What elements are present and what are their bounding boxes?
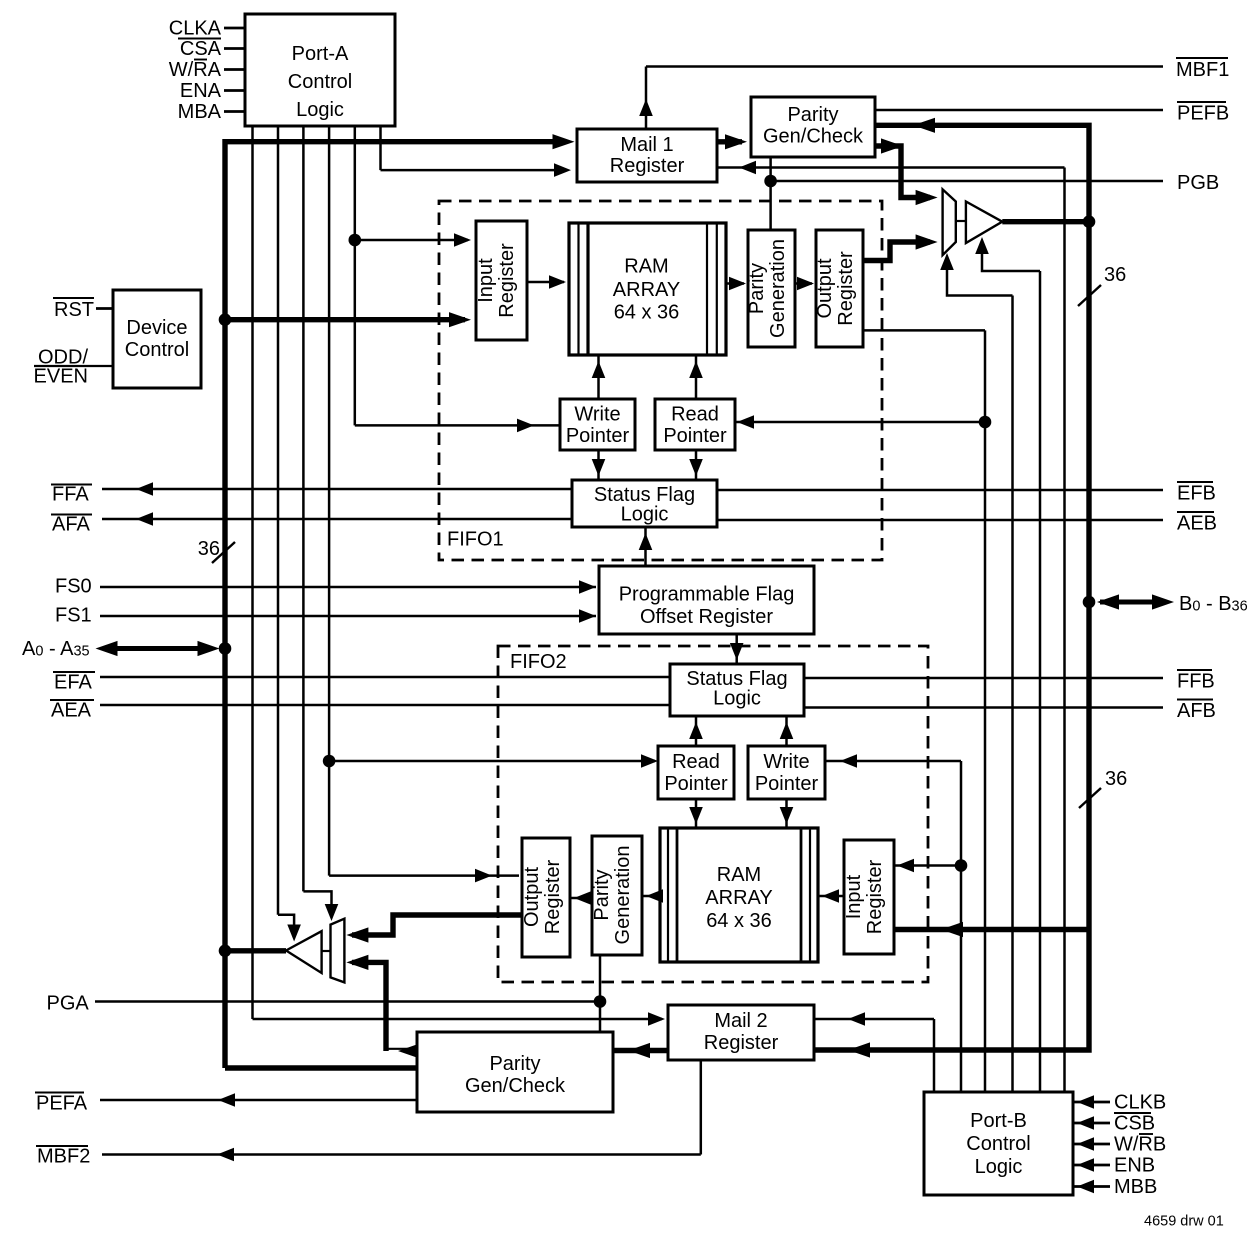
block Status Flag Logic (FIFO1): [572, 480, 717, 527]
wire to Input Register 2 enable: [895, 864, 962, 867]
label bus width 36 (B side upper): [1078, 264, 1126, 306]
wire CLKA lead: [224, 27, 245, 30]
arrow into Parity Gen/Check A right: [628, 1043, 650, 1058]
arrow MBF1 up: [639, 99, 653, 116]
arrow A0-A35 outward: [96, 641, 118, 656]
arrow into A output buffer enable: [287, 925, 301, 942]
arrow into Status Flag Logic 1 from Write Pointer: [592, 459, 606, 476]
wire Offset Register to Status Flag Logic 2: [735, 634, 738, 664]
wire mux A to buffer A: [322, 950, 331, 952]
block Parity Gen/Check (Port B): [751, 97, 875, 157]
wire Mail 1 return from Port-B: [717, 166, 1065, 169]
label drawing number 4659 drw 01: [1144, 1214, 1224, 1230]
wire portB ctl 5 vertical: [1039, 271, 1042, 1092]
node AFB label: [1177, 700, 1216, 723]
arrow into Output Register 2 left: [475, 869, 492, 883]
svg-text:Mail 1: Mail 1: [620, 134, 673, 156]
wire Parity Generation 1 to Output Register 1: [795, 282, 812, 285]
block FIFO2 dashed boundary: [498, 646, 928, 982]
arrow Write Pointer 1 up: [592, 361, 606, 378]
arrow up from Read Pointer 2: [689, 722, 703, 739]
wire PGA junction vertical: [599, 955, 602, 1033]
svg-text:FS1: FS1: [55, 605, 92, 627]
bus A-port data vertical with corners: [225, 142, 563, 1068]
wire PGB vertical to Parity Generation 1: [769, 158, 772, 231]
label bus width 36 (B side lower): [1079, 768, 1127, 808]
svg-text:Logic: Logic: [975, 1156, 1023, 1178]
svg-text:Parity: Parity: [787, 104, 838, 126]
wire Mail 1 to MBF1 vertical: [645, 67, 648, 130]
bus Mail 2 to Parity Gen/Check A: [613, 1048, 668, 1053]
svg-text:Parity: Parity: [591, 869, 613, 920]
wire ODD/EVEN lead with EVEN overline: [34, 365, 113, 367]
block Parity Gen/Check (Port A): [417, 1032, 613, 1112]
svg-text:PEFA: PEFA: [36, 1093, 88, 1115]
arrow into Write Pointer 2: [840, 754, 857, 768]
svg-text:Programmable Flag: Programmable Flag: [619, 584, 795, 606]
mux A output select (trapezoid): [331, 919, 345, 983]
svg-text:Logic: Logic: [713, 688, 761, 710]
junction portA ctl 5 / Input Register 1: [349, 234, 362, 247]
bus A bottom to Parity Gen/Check A: [225, 1065, 417, 1070]
svg-text:Write: Write: [574, 404, 620, 426]
block Port-A Control Logic: [245, 14, 395, 126]
junction portA ctl 4 / Read Pointer 2: [323, 755, 336, 768]
wire ENA lead: [224, 89, 245, 92]
block Parity Generation (FIFO1): [748, 230, 795, 347]
node AFA label: [51, 514, 92, 536]
svg-text:FIFO2: FIFO2: [510, 651, 567, 673]
bus A data to Input Register 1: [225, 317, 465, 322]
wire Read Pointer 1 enable from Port-B: [735, 421, 985, 424]
arrow AFA outward: [136, 512, 153, 526]
arrow into Status Flag Logic 1 from Read Pointer: [689, 459, 703, 476]
arrow up from Write Pointer 2: [780, 722, 794, 739]
arrow into Input Register 2 right: [897, 859, 914, 873]
wire CSB lead: [1073, 1122, 1110, 1125]
arrow into Mail 2 Register right: [848, 1012, 865, 1026]
wire to Read Pointer 2: [329, 760, 655, 763]
block FIFO1 dashed boundary: [439, 201, 882, 560]
arrow into Output Register 2: [574, 891, 591, 905]
node ENA label: [180, 80, 222, 102]
svg-text:Gen/Check: Gen/Check: [465, 1075, 566, 1097]
wire portB ctl 5 jog to B buffer: [982, 242, 1040, 271]
node PGA label: [47, 993, 90, 1015]
svg-text:AFB: AFB: [1177, 700, 1216, 722]
arrow bus into Parity Gen/Check B right: [913, 118, 935, 133]
junction B bus / buffer output: [1083, 215, 1096, 228]
arrow PEFA outward: [218, 1093, 235, 1107]
node EFA label: [53, 672, 95, 694]
node PGB label: [1177, 172, 1219, 194]
node PEFB label: [1177, 102, 1229, 125]
arrow into RAM 1: [549, 275, 566, 289]
label FIFO2: [510, 651, 567, 673]
block Write Pointer (FIFO2): [748, 746, 825, 799]
arrow into B mux input 1: [916, 190, 938, 205]
wire PEFA: [100, 1099, 417, 1102]
svg-text:Register: Register: [496, 243, 518, 318]
wire portB ctl 4 vertical: [1011, 296, 1014, 1093]
svg-text:Parity: Parity: [489, 1053, 540, 1075]
bus A0-A35 stub: [106, 646, 205, 651]
wire AEA: [100, 704, 670, 707]
svg-text:Register: Register: [610, 155, 685, 177]
node MBF1 label: [1176, 58, 1229, 81]
wire FS1: [100, 615, 596, 618]
arrow B0-B36 inward: [1097, 594, 1119, 609]
node W/RA label: [169, 59, 222, 81]
wire Parity Gen/Check A to A mux stub: [386, 1048, 417, 1050]
bus B0-B36 stub: [1100, 600, 1167, 605]
wire FFA: [102, 488, 572, 491]
wire portB ctl 1 vertical: [933, 1019, 936, 1092]
node CLKA label: [169, 18, 222, 40]
wire to Write Pointer 1: [355, 424, 560, 427]
arrow down into RAM 2 from Write Pointer: [780, 807, 794, 824]
block Read Pointer (FIFO2): [658, 746, 734, 799]
wire portA ctl 3 vertical: [302, 126, 305, 891]
wire PEFB: [875, 109, 1163, 112]
svg-text:EFB: EFB: [1177, 483, 1216, 505]
block Parity Generation (FIFO2): [592, 836, 642, 955]
wire portA ctl 1 vertical: [251, 126, 254, 1019]
svg-text:Read: Read: [672, 751, 720, 773]
wire portB ctl 4 jog to B mux: [947, 258, 1013, 296]
svg-text:MBA: MBA: [178, 101, 222, 123]
wire Output Register 1 enable: [863, 329, 985, 332]
wire FFB: [804, 677, 1163, 680]
arrow into Input Register 1 upper left: [454, 233, 471, 247]
wire portA ctl 5 vertical: [354, 126, 357, 425]
node CLKB label: [1114, 1092, 1166, 1114]
label bus width 36 (A side): [198, 538, 235, 563]
wire MBF1: [646, 65, 1163, 68]
node MBF2 label: [36, 1146, 90, 1168]
svg-text:Read: Read: [671, 404, 719, 426]
svg-text:Port-A: Port-A: [292, 43, 349, 65]
node CSA label: [178, 38, 222, 60]
svg-text:36: 36: [1105, 768, 1127, 790]
svg-text:MBB: MBB: [1114, 1176, 1157, 1198]
block Write Pointer (FIFO1): [560, 399, 635, 450]
svg-text:Logic: Logic: [621, 504, 669, 526]
mux B output select (trapezoid): [943, 189, 956, 255]
arrow into B mux select: [940, 253, 954, 270]
bus Output Register 1 to B mux input 2: [863, 242, 930, 261]
bus B data to Input Register 2: [895, 927, 1090, 932]
wire MBF2 horizontal: [102, 1153, 701, 1156]
wire EFA: [100, 676, 670, 679]
svg-text:FFB: FFB: [1177, 671, 1215, 693]
wire MBA lead: [224, 110, 245, 113]
block RAM ARRAY 64x36 (FIFO1): [569, 223, 726, 355]
arrow FS1 into Programmable Flag Offset Register: [579, 609, 596, 623]
bus A mux input 2 vertical: [352, 962, 386, 1051]
svg-text:RAM: RAM: [717, 864, 761, 886]
arrow MBB into Port-B Control Logic: [1077, 1180, 1094, 1194]
wire AFB: [804, 706, 1163, 709]
node RST label: [53, 298, 94, 321]
arrow FFA outward: [136, 482, 153, 496]
svg-text:Device: Device: [126, 317, 187, 339]
arrow into Mail 2 Register left: [648, 1012, 665, 1026]
node ODD/EVEN label: [34, 347, 89, 388]
svg-text:Generation: Generation: [612, 846, 634, 945]
block Input Register (FIFO1): [476, 221, 527, 340]
junction A bus / output buffer: [219, 945, 232, 958]
arrow down into RAM 2 from Read Pointer: [689, 807, 703, 824]
svg-text:Logic: Logic: [296, 99, 344, 121]
svg-text:FFA: FFA: [52, 484, 89, 506]
arrow into Parity Generation 2: [646, 889, 663, 903]
junction A bus / Input Register 1 feed: [219, 313, 232, 326]
wire AFA: [102, 518, 572, 521]
block Status Flag Logic (FIFO2): [670, 664, 804, 716]
junction A bus / A0-A35 port: [219, 642, 232, 655]
svg-text:Register: Register: [835, 251, 857, 326]
svg-text:MBF2: MBF2: [37, 1146, 90, 1168]
node AEA label: [50, 700, 94, 722]
svg-text:64 x 36: 64 x 36: [706, 910, 772, 932]
arrow into A mux input 1: [346, 927, 368, 942]
arrow Read Pointer 1 up: [689, 361, 703, 378]
wire Parity Generation 2 to Output Register 2: [570, 897, 592, 900]
svg-text:Gen/Check: Gen/Check: [763, 126, 864, 148]
junction portB ctl 3 / Read Pointer 1: [979, 416, 992, 429]
arrow down into Status Flag Logic 2: [730, 643, 744, 660]
wire Write Pointer 2 to Status Flag Logic 2: [785, 716, 788, 746]
node PEFA label: [35, 1093, 88, 1115]
svg-text:Pointer: Pointer: [664, 773, 728, 795]
svg-text:CLKA: CLKA: [169, 18, 222, 40]
block Input Register (FIFO2): [844, 840, 894, 954]
node FFB label: [1177, 670, 1215, 693]
bus Output Register 2 to A mux input 1: [352, 915, 522, 935]
wire RAM 1 to Parity Generation 1: [726, 282, 744, 285]
wire CSA lead: [224, 47, 245, 50]
node EFB label: [1177, 482, 1216, 505]
wire AEB: [717, 519, 1163, 522]
wire portB ctl 3 vertical: [984, 330, 987, 1092]
arrow CSB into Port-B Control Logic: [1077, 1116, 1094, 1130]
arrow into RAM 2: [822, 889, 839, 903]
block RAM ARRAY 64x36 (FIFO2): [660, 828, 818, 962]
svg-text:36: 36: [198, 538, 220, 560]
node FS1 label: [55, 605, 92, 627]
svg-text:Port-B: Port-B: [970, 1110, 1027, 1132]
arrow into A mux input 2: [346, 955, 368, 970]
svg-text:CSA: CSA: [180, 38, 222, 60]
svg-text:Write: Write: [763, 751, 809, 773]
wire portB ctl 2 vertical: [960, 761, 963, 1092]
svg-text:RST: RST: [54, 299, 94, 321]
block Mail 1 Register: [577, 129, 717, 182]
wire portA ctl 4 to Output Register 2: [329, 874, 519, 877]
node ENB label: [1114, 1155, 1155, 1177]
node FFA label: [51, 484, 92, 506]
wire FS0: [100, 586, 596, 589]
wire portB ctl 6 vertical: [1063, 168, 1066, 1093]
arrow out of Parity Gen/Check B: [881, 138, 903, 153]
arrow into Input Register 2 data: [941, 922, 963, 937]
svg-text:CSB: CSB: [1114, 1113, 1155, 1135]
svg-text:Output: Output: [814, 258, 836, 318]
svg-text:Parity: Parity: [746, 263, 768, 314]
buffer A tri-state output (triangle): [286, 931, 322, 973]
node FS0 label: [55, 576, 92, 598]
svg-text:Pointer: Pointer: [566, 425, 630, 447]
svg-text:Generation: Generation: [767, 239, 789, 338]
svg-text:ARRAY: ARRAY: [705, 887, 772, 909]
wire Read Pointer 2 to Status Flag Logic 2: [695, 716, 698, 746]
wire portA ctl 6 to Mail1: [381, 169, 567, 172]
wire Read Pointer 1 to RAM 1: [695, 355, 698, 399]
svg-text:FS0: FS0: [55, 576, 92, 598]
wire portA ctl 6 vertical: [379, 126, 382, 170]
block Programmable Flag Offset Register: [599, 566, 814, 634]
buffer B tri-state output (triangle): [966, 202, 1002, 244]
svg-text:4659 drw 01: 4659 drw 01: [1144, 1214, 1224, 1230]
node MBB label: [1114, 1176, 1157, 1198]
node W/RB label: [1114, 1134, 1166, 1156]
svg-text:W/RA: W/RA: [169, 59, 222, 81]
wire PGA: [95, 1000, 600, 1003]
wire W/RB lead: [1073, 1143, 1110, 1146]
wire portA ctl 4 vertical: [328, 126, 331, 876]
node CSB label: [1114, 1113, 1155, 1135]
wire MBB lead: [1073, 1185, 1110, 1188]
block Mail 2 Register: [668, 1005, 814, 1060]
arrow into Parity Gen/Check B: [725, 134, 747, 149]
wire CLKB lead: [1073, 1101, 1110, 1104]
wire Write Pointer 2 to RAM 2: [785, 799, 788, 828]
svg-text:Register: Register: [542, 859, 564, 934]
arrow into Read Pointer 1: [737, 415, 754, 429]
svg-text:Register: Register: [864, 859, 886, 934]
svg-text:ENA: ENA: [180, 80, 222, 102]
bus Parity Gen/Check B to B mux input 1: [875, 146, 930, 198]
arrow into Output Register 1: [797, 277, 814, 291]
wire RAM 2 to Parity Generation 2: [642, 895, 662, 898]
wire PGB: [771, 180, 1163, 183]
svg-text:Pointer: Pointer: [755, 773, 819, 795]
wire Input Register 2 to RAM 2: [818, 895, 844, 898]
block Port-B Control Logic: [924, 1092, 1073, 1195]
wire W/RA lead: [224, 68, 245, 71]
svg-text:EFA: EFA: [54, 672, 92, 694]
arrow into A mux select: [325, 904, 339, 921]
bus Mail 1 to Parity Gen/Check B: [717, 139, 742, 144]
arrow into Read Pointer 2 left: [641, 754, 658, 768]
arrow bus into Mail 1 Register: [553, 134, 575, 149]
arrow W/RB into Port-B Control Logic: [1077, 1137, 1094, 1151]
arrow into Mail 1 Register lower left: [554, 163, 571, 177]
label FIFO1: [447, 529, 504, 551]
wire Offset Register to Status Flag Logic 1: [644, 527, 647, 566]
svg-text:36: 36: [1104, 264, 1126, 286]
junction B bus / B0-B36 port: [1083, 596, 1096, 609]
wire to Input Register 1 enable: [355, 239, 468, 242]
bus buffer B output to B bus: [1002, 219, 1089, 224]
svg-text:W/RB: W/RB: [1114, 1134, 1166, 1156]
block Read Pointer (FIFO1): [655, 399, 735, 450]
svg-text:Control: Control: [966, 1133, 1030, 1155]
svg-text:Offset Register: Offset Register: [640, 606, 773, 628]
arrow ENB into Port-B Control Logic: [1077, 1158, 1094, 1172]
svg-text:Mail 2: Mail 2: [714, 1010, 767, 1032]
arrow up into Status Flag Logic 1: [639, 533, 653, 550]
wire portB ctl 2 to Write Pointer 2: [825, 760, 961, 763]
arrow FS0 into Programmable Flag Offset Register: [579, 580, 596, 594]
block Device Control: [113, 290, 201, 388]
svg-text:Input: Input: [475, 258, 497, 303]
svg-text:ARRAY: ARRAY: [613, 279, 680, 301]
arrow bus into Input Register 1: [449, 312, 471, 327]
svg-text:CLKB: CLKB: [1114, 1092, 1166, 1114]
svg-text:AFA: AFA: [52, 514, 90, 536]
wire Read Pointer 1 to Status Flag Logic 1: [695, 450, 698, 480]
block Output Register (FIFO2): [522, 838, 570, 957]
wire portA ctl 3 jog to A mux: [303, 891, 331, 915]
arrow toward Write Pointer 1: [517, 419, 534, 433]
wire Write Pointer 1 to RAM 1: [597, 355, 600, 399]
node AEB label: [1177, 512, 1217, 535]
arrow MBF2 outward: [217, 1148, 234, 1162]
wire ENB lead: [1073, 1164, 1110, 1167]
svg-text:PEFB: PEFB: [1177, 103, 1229, 125]
node MBA label: [178, 101, 222, 123]
wire portB ctl 1 to Mail 2: [814, 1018, 934, 1021]
svg-text:FIFO1: FIFO1: [447, 529, 504, 551]
arrow CLKB into Port-B Control Logic: [1077, 1095, 1094, 1109]
svg-text:AEA: AEA: [51, 700, 92, 722]
svg-text:Control: Control: [288, 71, 352, 93]
arrow B0-B36 outward: [1152, 594, 1174, 609]
junction PGB: [764, 175, 777, 188]
arrow into B mux input 2: [916, 234, 938, 249]
junction PGA / Parity Generation 2 / Parity Gen-Check A: [594, 995, 607, 1008]
arrow into Parity Generation 1: [729, 277, 746, 291]
junction portB ctl 2 / Input Register 2: [955, 859, 968, 872]
svg-text:Register: Register: [704, 1032, 779, 1054]
wire MBF2 vertical from Mail 2: [700, 1060, 703, 1155]
svg-text:Pointer: Pointer: [663, 425, 727, 447]
arrow bus into Mail 2 Register: [848, 1042, 870, 1057]
svg-text:ENB: ENB: [1114, 1155, 1155, 1177]
wire portA ctl 2 vertical: [277, 126, 280, 915]
wire Input Register 1 to RAM 1: [527, 281, 564, 284]
bus B-port data vertical with corners: [814, 125, 1089, 1050]
arrow A0-A35 inward: [198, 641, 220, 656]
wire EFB: [717, 489, 1163, 492]
svg-text:Input: Input: [843, 874, 865, 919]
wire portA ctl 1 to Mail2: [253, 1018, 663, 1021]
wire Write Pointer 1 to Status Flag Logic 1: [597, 450, 600, 480]
svg-text:64 x 36: 64 x 36: [614, 302, 680, 324]
block Output Register (FIFO1): [816, 230, 863, 347]
arrow from Parity Gen/Check A into mux wire: [398, 1043, 420, 1058]
svg-text:RAM: RAM: [624, 256, 668, 278]
svg-text:EVEN: EVEN: [34, 366, 88, 388]
svg-text:AEB: AEB: [1177, 513, 1217, 535]
wire Read Pointer 2 to RAM 2: [695, 799, 698, 828]
svg-text:MBF1: MBF1: [1176, 59, 1229, 81]
svg-text:Output: Output: [521, 867, 543, 927]
wire RST lead: [96, 307, 113, 310]
wire mux B to buffer B: [956, 220, 966, 222]
